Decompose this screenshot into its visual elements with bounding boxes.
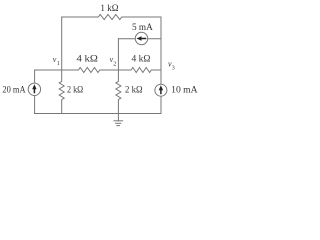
svg-text:2 kΩ: 2 kΩ bbox=[125, 86, 143, 96]
svg-text:1: 1 bbox=[57, 61, 60, 67]
svg-text:20 mA: 20 mA bbox=[2, 86, 25, 96]
svg-text:1 kΩ: 1 kΩ bbox=[100, 4, 118, 14]
svg-text:2: 2 bbox=[113, 61, 116, 67]
svg-text:3: 3 bbox=[172, 66, 175, 72]
svg-text:2 kΩ: 2 kΩ bbox=[67, 86, 83, 96]
svg-text:4 kΩ: 4 kΩ bbox=[77, 55, 98, 65]
svg-text:10 mA: 10 mA bbox=[171, 86, 198, 96]
svg-text:5 mA: 5 mA bbox=[132, 23, 153, 33]
svg-text:4 kΩ: 4 kΩ bbox=[132, 55, 151, 65]
